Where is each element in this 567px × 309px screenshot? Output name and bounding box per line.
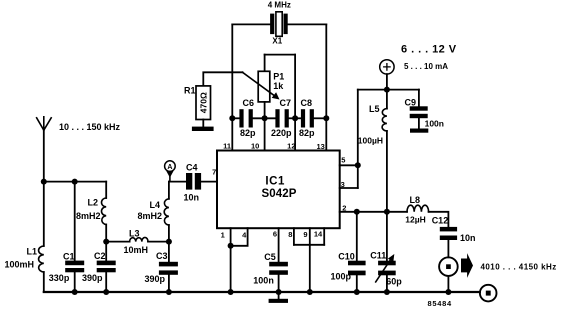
svg-text:390p: 390p [82,273,103,283]
inductor L8 [407,205,429,212]
capacitor C4 [186,173,201,190]
capacitor C10 [348,261,366,276]
junction pin1/pin4 [228,243,234,249]
wire P1 bracket left [264,55,266,72]
P1 wiper arrow [243,72,280,99]
svg-text:82p: 82p [240,128,256,138]
capacitor C5 [269,262,288,275]
svg-text:4 MHz: 4 MHz [268,0,291,9]
op IC1 S042P box [217,151,340,229]
svg-text:R1: R1 [184,86,196,96]
wire antenna down lead [43,130,45,246]
node A test point [165,161,176,182]
trimmer capacitor C11 [378,261,396,276]
svg-text:4: 4 [242,230,247,239]
inductor L5 [382,109,387,131]
wire L2 top lead [105,182,107,198]
svg-text:5: 5 [341,156,345,165]
wire pin 14 stub [323,228,325,245]
junction rail/C2 [103,289,109,295]
svg-text:12µH: 12µH [405,215,426,225]
junction bus/P1 left (pin 10) [262,115,268,121]
wire P1 bottom lead [264,102,266,118]
wire C10 top lead [356,212,358,261]
wire C2 top lead [105,242,107,261]
svg-text:12: 12 [287,142,295,151]
junction pin5/vertical [355,162,361,168]
svg-text:85484: 85484 [428,299,452,308]
svg-text:C12: C12 [432,216,449,226]
wire L3 right lead [148,241,169,243]
wire bracket to rail [309,245,311,292]
inductor L1 [39,246,44,272]
wire C10 bottom lead [356,275,358,292]
resistor R1 [196,86,211,120]
svg-text:C8: C8 [301,98,313,108]
wire oscillator bus segment 4 [314,117,326,119]
junction L2/C2/L3 [103,239,109,245]
svg-text:L1: L1 [27,247,38,257]
svg-text:A: A [167,164,172,171]
svg-text:11: 11 [223,141,231,150]
antenna [37,117,52,130]
wire C4 to pin 7 [201,181,217,183]
wire crystal top right [288,23,327,25]
svg-text:C2: C2 [94,251,106,261]
svg-text:L8: L8 [410,195,421,205]
svg-text:S042P: S042P [261,188,296,200]
svg-text:L4: L4 [150,200,161,210]
svg-text:9: 9 [303,230,307,239]
junction rail/C1 [72,289,78,295]
wire C3 top lead [168,242,170,262]
wire ground rail [44,291,480,293]
capacitor C6 [239,109,252,127]
junction C1 top [72,179,78,185]
capacitor C3 [159,262,178,275]
wire oscillator bus segment 2 [253,117,276,119]
wire crystal loop right vertical (pin 13) [325,24,327,150]
wire pin 4 bracket [231,228,248,246]
svg-text:14: 14 [314,230,323,239]
ground symbol below R1 [192,127,214,131]
svg-text:7: 7 [212,168,216,177]
svg-text:10mH: 10mH [124,245,149,255]
svg-text:2: 2 [342,203,346,212]
wire crystal top left [232,23,270,25]
svg-text:100n: 100n [425,118,444,128]
svg-text:82p: 82p [299,128,315,138]
junction L3/L4/C3 [166,239,172,245]
capacitor C9 [410,106,428,118]
power terminal + [380,60,394,74]
svg-text:13: 13 [316,142,324,151]
svg-text:10n: 10n [184,193,200,203]
wire C5 bottom lead [278,275,280,292]
junction rail/C10 [354,289,360,295]
coax output socket [439,257,458,276]
svg-text:L5: L5 [369,104,380,114]
wire R1 ground lead [202,120,204,127]
wire pin 2 output line [340,211,407,213]
svg-text:C10: C10 [338,251,355,261]
junction rail/C11 [384,289,390,295]
svg-text:P1: P1 [273,71,284,81]
wire pin 5 stub [340,164,358,166]
svg-text:C3: C3 [156,251,168,261]
wire C11 top lead [386,212,388,261]
wire L3 left lead [106,241,129,243]
svg-text:470Ω: 470Ω [198,92,208,113]
svg-text:4010 . . . 4150 kHz: 4010 . . . 4150 kHz [481,262,557,271]
wire L5 top lead [386,90,388,109]
wire C1 bottom lead [74,272,76,292]
capacitor C12 [440,227,457,240]
svg-text:10n: 10n [460,233,476,243]
wire output socket to rail [447,276,449,292]
svg-text:C11: C11 [370,251,386,261]
svg-text:X1: X1 [272,37,282,46]
junction bus/pin11 [229,115,235,121]
svg-text:L3: L3 [129,228,140,238]
wire pin 1 lead [230,228,232,292]
svg-text:100p: 100p [331,271,352,281]
wire pins 5/3 vertical to supply [357,90,359,188]
wire L4 bottom lead [168,225,170,242]
wire L4 top lead [168,182,170,199]
junction antenna/input bus [41,179,47,185]
svg-text:390p: 390p [145,274,166,284]
wire R1 top lead [203,72,242,86]
svg-text:220p: 220p [271,128,292,138]
svg-text:1k: 1k [273,81,284,91]
wire pin 12 stub [294,118,296,150]
svg-text:6 . . . 12 V: 6 . . . 12 V [401,43,457,55]
svg-text:8mH2: 8mH2 [76,211,101,221]
junction rail/C3 [166,289,172,295]
wire node A to C4 [169,181,186,183]
svg-text:100n: 100n [253,275,274,285]
svg-text:C6: C6 [243,98,255,108]
wire pins 8-9-14 bracket [294,244,324,246]
wire pin 3 stub [340,187,358,189]
svg-text:5 . . . 10 mA: 5 . . . 10 mA [404,62,448,71]
svg-text:100mH: 100mH [5,260,35,270]
svg-text:3: 3 [341,180,345,189]
capacitor C1 [65,261,84,273]
wire L2 bottom lead [105,225,107,242]
wire C3 bottom lead [168,275,170,292]
wire supply horizontal [358,89,419,91]
wire C11 bottom lead [386,275,388,292]
svg-text:330p: 330p [49,273,70,283]
wire C12 to output socket [447,240,449,257]
wire C9 ground lead [418,118,420,128]
inductor L3 [130,237,148,241]
svg-text:60p: 60p [386,277,402,287]
svg-text:6: 6 [273,229,277,238]
wire pin 10 stub [264,118,266,150]
wire crystal loop left vertical (pin 11) [231,24,233,150]
capacitor C7 [275,109,288,127]
junction rail/output [445,289,451,295]
junction pin2/L5/C11 [384,209,390,215]
wire P1 bracket right [294,55,296,119]
wire pin 6 / C5 top lead [278,228,280,262]
trimmer P1 body [258,71,270,102]
crystal X1 [270,12,288,37]
wire pin 9 stub [309,228,311,245]
C11 adjust arrow [376,254,395,282]
svg-text:10: 10 [251,141,259,150]
svg-text:C7: C7 [280,98,292,108]
ground symbol below C5 [269,299,288,303]
wire oscillator bus segment 1 [232,117,239,119]
capacitor C2 [97,261,116,273]
junction pin2/C10 [354,209,360,215]
junction rail/pin1 [228,289,234,295]
output arrow [461,253,473,278]
wire pin 8 stub [293,228,295,245]
wire C2 bottom lead [105,272,107,292]
junction supply node [384,87,390,93]
svg-text:10 . . . 150 kHz: 10 . . . 150 kHz [59,122,121,132]
svg-text:C5: C5 [264,252,276,262]
svg-text:C4: C4 [186,162,198,172]
wire L5 bottom lead [386,131,388,212]
ground symbol below C9 [410,129,428,133]
wire oscillator bus segment 3 [289,117,301,119]
svg-text:8mH2: 8mH2 [138,211,163,221]
wire L1 to ground rail [43,272,45,292]
junction rail/C5 [276,289,282,295]
junction bus/pin13 [323,115,329,121]
inductor L2 [102,198,107,225]
wire power terminal down [386,74,388,90]
capacitor C8 [301,109,314,127]
wire C9 top lead [418,90,420,107]
svg-text:100µH: 100µH [358,136,383,146]
wire P1 bracket top [265,54,296,56]
svg-text:8: 8 [288,230,292,239]
svg-text:C9: C9 [405,98,417,108]
wire C5 ground stub [278,292,280,299]
svg-text:IC1: IC1 [265,175,285,187]
svg-text:C1: C1 [63,251,75,261]
svg-text:1: 1 [221,231,225,240]
junction bus/P1 right (pin 12) [292,115,298,121]
wire L8 to C12 [429,212,449,227]
wire horizontal input bus y=181.6 [44,181,106,183]
junction rail/pins 8-9-14 [307,289,313,295]
wire C1 top lead [74,182,76,261]
svg-text:L2: L2 [88,198,99,208]
inductor L4 [164,199,169,225]
ground terminal socket [480,285,497,302]
